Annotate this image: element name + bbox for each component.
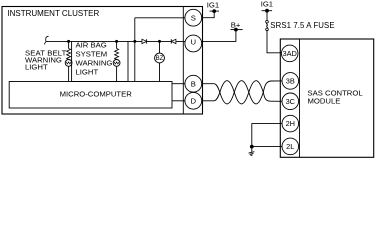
wire: B+ drop to U [201,30,236,42]
SAS connector strip divider [299,39,301,157]
instrument cluster box [2,7,203,115]
wire: air bag branch top [116,41,118,48]
node: IG1 right dot [265,9,269,13]
wire: buzzer branch top [159,41,161,53]
buzzer BZ [155,53,165,63]
twisted pair wire B to 3B [202,81,282,104]
micro-computer box [9,82,172,109]
resistor: seat belt bulb check resistor [67,49,71,60]
terminal 3C [282,93,299,110]
wire: seat belt branch top [68,41,70,48]
instrument cluster connector strip divider [182,7,184,115]
terminal S [185,9,202,26]
node: junction seat belt branch [67,40,70,43]
svg-text:INSTRUMENT CLUSTER: INSTRUMENT CLUSTER [7,9,99,18]
node: junction air bag branch [115,40,118,43]
node: junction S wire [133,40,136,43]
wire: micro-computer to B [172,83,185,85]
svg-text:SRS1 7.5 A FUSE: SRS1 7.5 A FUSE [270,21,334,30]
ground stub [251,147,253,153]
wire: air bag branch bottom [116,66,118,81]
resistor: air bag bulb check resistor [115,49,119,60]
wire: S terminal horizontal [135,17,185,19]
SAS control module box [280,39,373,157]
svg-text:2L: 2L [286,142,294,151]
lamp: air bag system warning light bulb [113,60,120,67]
node: IG1 left dot [212,9,216,13]
terminal 3AD [281,45,298,62]
wire: micro-computer to D [172,100,185,102]
svg-text:D: D [191,97,197,106]
wire: IG1 left drop to S [202,11,215,18]
terminal 3B [282,73,299,90]
svg-text:B: B [191,79,196,88]
lamp: seat belt warning light bulb [65,60,72,67]
wire: bus wire from connector curl to terminal U [46,40,185,42]
B+ tick [231,29,243,31]
svg-text:3AD: 3AD [283,49,297,58]
svg-text:IG1: IG1 [207,1,219,10]
wire: 2H to ground [252,124,282,147]
air bag label box [72,41,128,81]
svg-text:AIR BAG: AIR BAG [76,41,107,50]
wire: fuse to 3AD [267,31,281,53]
ground symbol [249,152,255,156]
svg-text:SYSTEM: SYSTEM [76,50,108,59]
svg-text:3C: 3C [286,97,296,106]
wire: S terminal to micro-computer (vertical) [134,18,136,82]
svg-text:LIGHT: LIGHT [25,63,48,72]
svg-text:3B: 3B [286,77,295,86]
terminal B [185,75,202,92]
svg-text:MICRO-COMPUTER: MICRO-COMPUTER [60,89,133,98]
svg-text:B+: B+ [231,20,241,29]
connector curl (wire continues symbol) [44,36,48,44]
wire: IG1 right top [266,11,268,21]
node: B+ dot [234,28,238,32]
diode D2 (anode right, points left) [171,39,176,43]
svg-text:WARNING: WARNING [76,58,113,67]
twisted pair wire D to 3C [202,81,282,104]
wire: buzzer branch bottom [159,63,161,82]
terminal D [185,92,202,109]
IG1 left tick [210,10,219,12]
terminal 2L [282,138,299,155]
svg-text:IG1: IG1 [261,0,273,9]
node: ground junction dot [250,145,254,149]
terminal 2H [282,115,299,132]
node: junction buzzer branch [158,40,161,43]
svg-text:LIGHT: LIGHT [76,67,99,76]
svg-text:S: S [191,13,196,22]
IG1 right tick [262,10,273,12]
svg-text:2H: 2H [286,119,295,128]
svg-text:U: U [191,38,197,47]
terminal U [185,35,202,52]
fuse SRS1 7.5A [266,20,269,23]
svg-text:MODULE: MODULE [308,97,341,106]
wire: seat belt branch bottom [68,66,70,81]
wire: 2L to ground [252,146,282,148]
svg-text:BZ: BZ [156,55,164,62]
diode D1 (anode left) [142,39,147,43]
